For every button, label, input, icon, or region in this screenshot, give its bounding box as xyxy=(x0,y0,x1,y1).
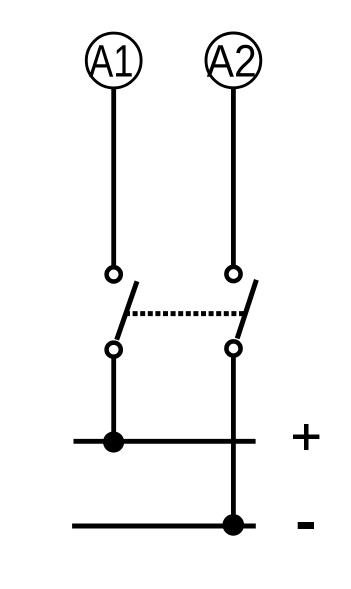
+ bus wire xyxy=(74,439,256,444)
junction node on + bus xyxy=(103,431,124,452)
mechanical linkage (dotted coupling line) xyxy=(125,311,247,316)
terminal circle A2 xyxy=(206,33,261,88)
wire A2 to switch S2 upper contact xyxy=(231,87,236,267)
wire A1 to switch S1 upper contact xyxy=(111,87,116,267)
switch S2 upper contact xyxy=(226,267,240,281)
label - (minus sign) xyxy=(298,522,314,529)
junction node on - bus xyxy=(223,514,245,536)
label + (plus sign) xyxy=(293,424,319,450)
wire switch S2 lower contact to - bus junction xyxy=(231,356,236,525)
switch S1 upper contact xyxy=(107,267,121,281)
terminal circle A1 xyxy=(86,33,141,88)
- bus wire xyxy=(72,524,256,529)
switch S1 lower contact xyxy=(107,343,121,357)
switch S2 blade xyxy=(237,280,256,339)
switch S1 blade xyxy=(117,281,137,339)
wire switch S1 lower contact to + bus junction xyxy=(111,357,116,442)
svg-text:A2: A2 xyxy=(207,35,257,86)
svg-text:A1: A1 xyxy=(89,35,134,86)
switch S2 lower contact xyxy=(226,341,240,355)
